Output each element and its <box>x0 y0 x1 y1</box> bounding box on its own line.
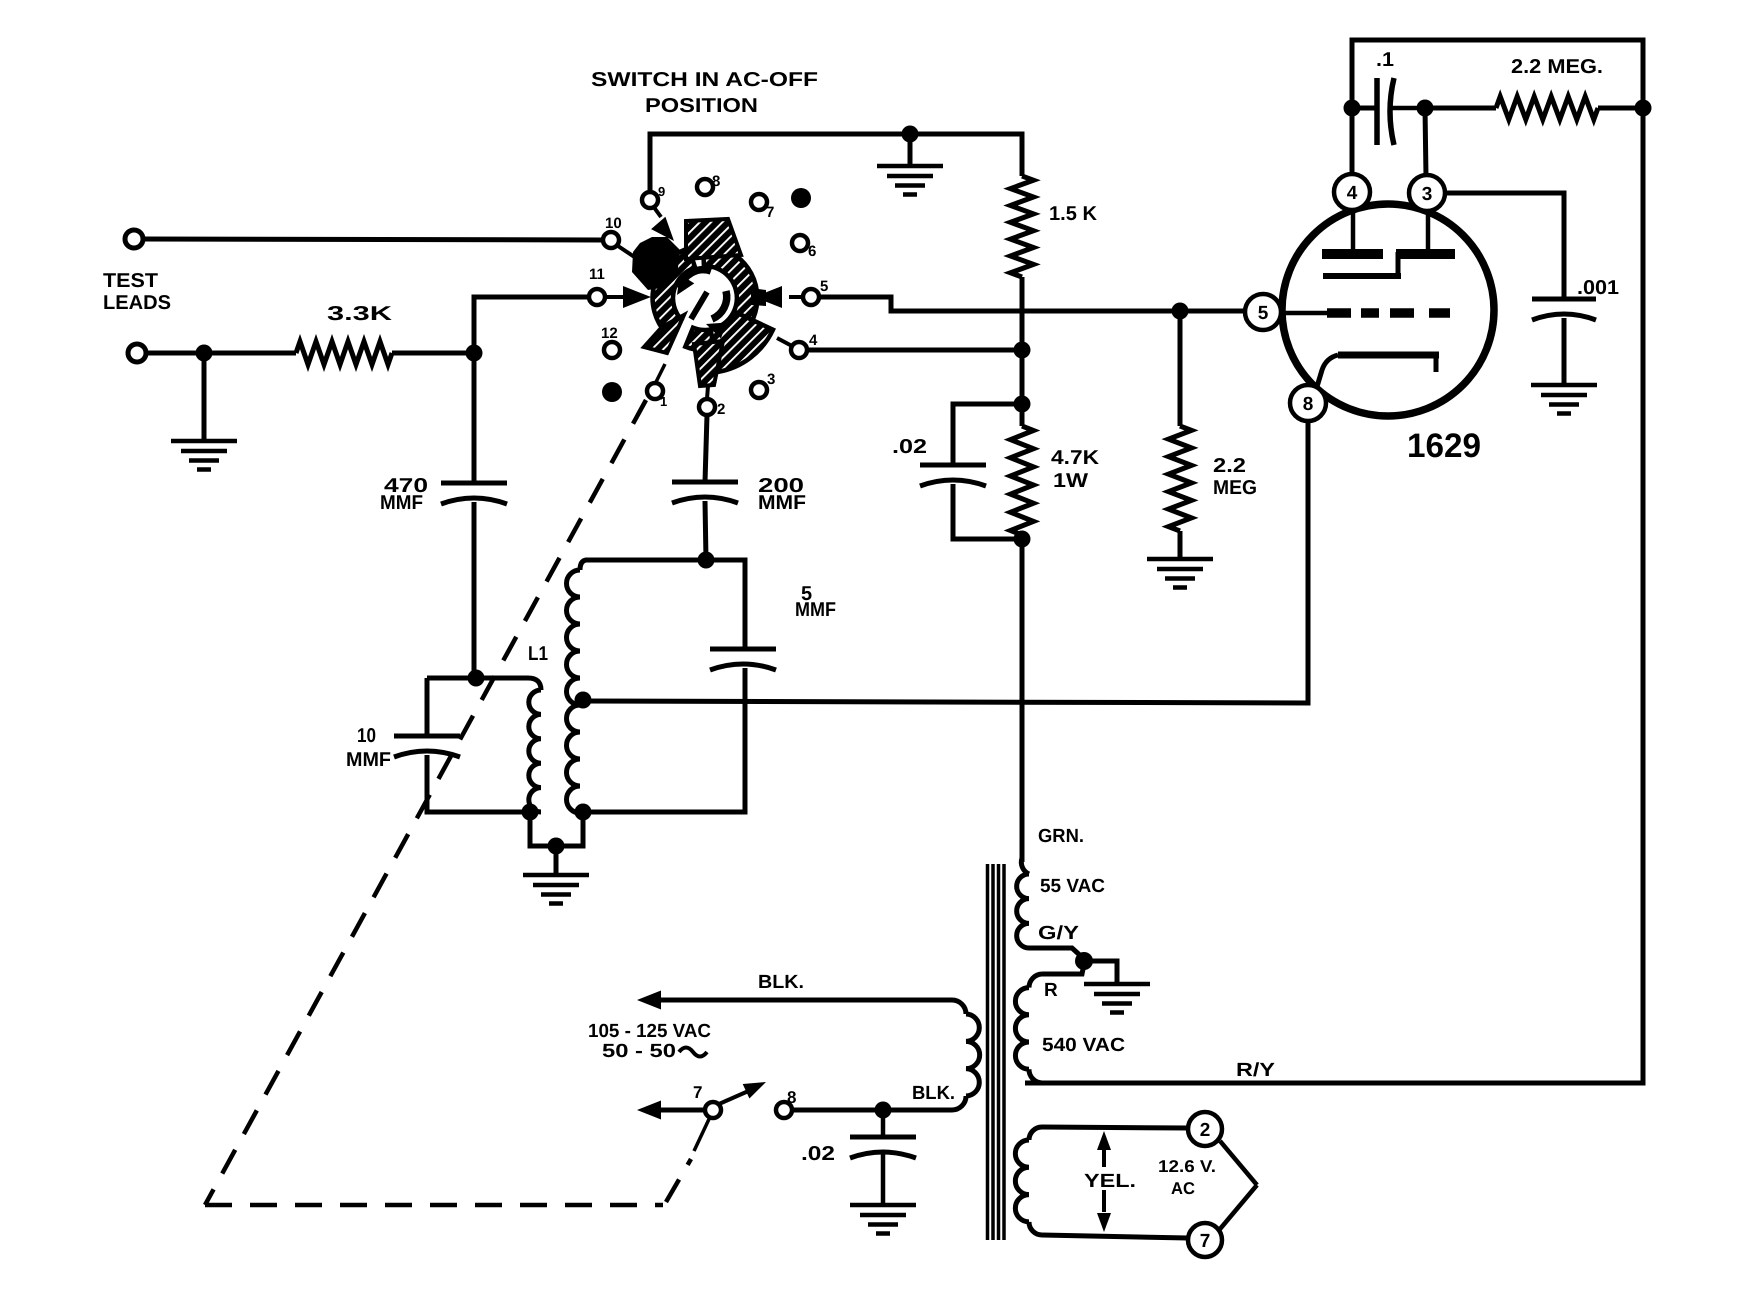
transformer secondary 540VAC winding <box>1029 974 1042 988</box>
svg-text:1629: 1629 <box>1407 427 1481 465</box>
linkage hook at rotor <box>656 364 665 382</box>
wire R winding top <box>1042 964 1084 974</box>
node junction grid divider <box>1014 342 1031 359</box>
wire junction down to 470MMF <box>472 353 477 483</box>
node junction L1 primary bottom <box>522 804 539 821</box>
node junction top ground <box>902 126 919 143</box>
rotary switch rotor bottom wedge <box>694 341 723 386</box>
terminal 2 <box>1188 1112 1222 1146</box>
tube grid lead-in <box>1266 311 1327 316</box>
node junction 2.2MEG grid <box>1172 303 1189 320</box>
svg-text:MMF: MMF <box>380 492 423 514</box>
arrow AC line lead <box>637 1101 661 1120</box>
node junction L1 tap <box>575 692 592 709</box>
switch AC arm <box>719 1089 753 1104</box>
switch contact 2 <box>699 399 715 415</box>
transformer secondary YEL winding <box>1042 1127 1188 1128</box>
svg-text:AC: AC <box>1171 1179 1195 1198</box>
rotary switch wiper nub right <box>751 288 766 306</box>
ground at test lead <box>202 353 207 441</box>
rotary switch rotor right arc <box>685 245 757 350</box>
arrow BLK line lead <box>637 991 661 1010</box>
arrow contact 5 wiper <box>754 286 782 308</box>
svg-text:SWITCH IN AC-OFF: SWITCH IN AC-OFF <box>591 69 818 91</box>
wire top rail <box>1352 40 1643 108</box>
svg-text:3.3K: 3.3K <box>327 303 393 325</box>
tube grid dashes <box>1327 308 1351 318</box>
wire divider to transformer GRN <box>1020 535 1025 862</box>
tube cathode <box>1338 352 1439 359</box>
rotary switch hub slash <box>691 292 707 319</box>
svg-text:2.2 MEG.: 2.2 MEG. <box>1511 56 1603 78</box>
switch contact 9 <box>642 192 658 208</box>
rotary switch inner hub arrow cw <box>712 291 727 319</box>
wire junction down <box>1020 350 1025 404</box>
svg-text:2: 2 <box>717 401 725 418</box>
wire pin4 up <box>1350 108 1355 176</box>
node junction at ground tap <box>196 345 213 362</box>
svg-text:TEST: TEST <box>103 270 158 292</box>
ground at .001 <box>1562 318 1567 385</box>
tube ray shield <box>1323 273 1401 279</box>
svg-text:12.6 V.: 12.6 V. <box>1158 1157 1216 1176</box>
tube target anode right <box>1396 249 1455 259</box>
node junction L1 secondary bottom <box>575 804 592 821</box>
tube pin 3 <box>1409 175 1445 211</box>
switch contact 7 <box>751 194 767 210</box>
svg-text:BLK.: BLK. <box>758 972 804 993</box>
svg-text:BLK.: BLK. <box>912 1083 955 1104</box>
dashed linkage rotor to bottom <box>205 400 646 1205</box>
switch unused dot left <box>602 382 622 402</box>
terminal 7 yel <box>1188 1223 1222 1257</box>
wire .02 branch top <box>953 404 1022 465</box>
svg-text:8: 8 <box>712 173 720 190</box>
svg-text:9: 9 <box>658 184 665 199</box>
rotary switch rotor bottom-right lobe <box>711 312 773 372</box>
capacitor 10 MMF <box>394 734 460 739</box>
switch contact 10 <box>603 232 619 248</box>
svg-text:55 VAC: 55 VAC <box>1040 876 1105 897</box>
svg-text:.02: .02 <box>801 1143 835 1165</box>
svg-text:MMF: MMF <box>758 492 806 514</box>
wire pin3 up <box>1425 108 1426 177</box>
svg-text:8: 8 <box>787 1088 796 1107</box>
svg-text:1W: 1W <box>1053 470 1088 492</box>
switch contact 3 <box>751 382 767 398</box>
wire .02 branch bottom <box>953 484 1022 539</box>
wire contact 5 to grid line <box>819 297 1245 311</box>
svg-text:4: 4 <box>809 332 818 349</box>
node junction .02 line <box>875 1102 892 1119</box>
wire 12.6V bracket <box>1220 1141 1257 1185</box>
wire 5MMF down to loop bottom <box>583 668 745 812</box>
svg-text:4: 4 <box>1347 183 1358 204</box>
svg-text:105 - 125 VAC: 105 - 125 VAC <box>588 1021 711 1042</box>
node junction L1 ground <box>548 838 565 855</box>
wire 470MMF to L1 loop <box>472 502 477 678</box>
svg-text:11: 11 <box>589 266 605 283</box>
wire L1 tap to tube pin 8 <box>583 421 1308 703</box>
wire 3.3K to junction <box>392 351 474 356</box>
tube pin 5 <box>1245 294 1281 330</box>
svg-text:LEADS: LEADS <box>103 292 171 314</box>
arrow contact 11 wiper <box>623 286 651 308</box>
terminal test lead 2 <box>128 344 146 362</box>
wire L1 common to ground <box>530 812 583 846</box>
svg-text:POSITION: POSITION <box>645 95 758 117</box>
svg-text:.1: .1 <box>1376 49 1394 71</box>
yel winding span arrow <box>1102 1148 1106 1167</box>
ground at L1 <box>554 846 559 875</box>
wire loop left upper <box>425 678 430 736</box>
svg-text:7: 7 <box>1200 1231 1211 1252</box>
svg-text:G/Y: G/Y <box>1038 923 1079 944</box>
node junction .1 left <box>1344 100 1361 117</box>
wire test lead 1 to contact 10 <box>143 239 603 240</box>
wire pin3 to .001 <box>1444 193 1564 299</box>
svg-text:7: 7 <box>766 204 774 221</box>
svg-text:L1: L1 <box>528 643 548 665</box>
node junction 200MMF at loop <box>698 552 715 569</box>
resistor 1.5K <box>1011 176 1034 277</box>
transformer core <box>986 864 990 1240</box>
svg-text:MEG: MEG <box>1213 477 1257 499</box>
rotary switch wiper blob upper-left <box>632 237 680 290</box>
wire 200MMF to loop <box>705 501 706 560</box>
svg-text:.001: .001 <box>1577 277 1619 299</box>
svg-text:10: 10 <box>605 215 622 232</box>
wire 1.5K to junction <box>1020 277 1025 350</box>
ground at .02 line <box>850 1203 916 1208</box>
switch contact 6 <box>792 235 808 251</box>
capacitor .001 <box>1532 297 1596 302</box>
switch AC contact 8 <box>776 1102 792 1118</box>
wire 2.2MEG to right rail <box>1598 106 1643 111</box>
svg-text:7: 7 <box>693 1083 702 1102</box>
rotary switch rotor left arc <box>653 248 696 333</box>
tube pin 8 <box>1290 385 1326 421</box>
svg-text:3: 3 <box>1422 184 1433 205</box>
wire contact 8 to transformer <box>792 1108 952 1113</box>
wire test lead 2 to resistor <box>146 351 296 356</box>
wire loop top left <box>427 676 476 681</box>
node junction G/Y ground <box>1075 952 1093 970</box>
capacitor .02 middle <box>920 463 986 468</box>
capacitor 470 MMF <box>441 481 507 486</box>
resistor 2.2 MEG shunt <box>1178 311 1183 426</box>
ground at 2.2MEG <box>1178 531 1183 559</box>
transformer secondary 55VAC winding <box>1021 858 1029 874</box>
wire right rail R/Y <box>1025 108 1643 1083</box>
switch AC pivot link <box>694 1117 710 1151</box>
dashed linkage to AC switch <box>666 1159 691 1202</box>
svg-text:3: 3 <box>767 371 775 388</box>
ground at G/Y <box>1090 961 1117 984</box>
svg-text:R: R <box>1044 980 1058 1001</box>
node junction .02 top <box>1014 396 1031 413</box>
rotary switch inner hub arrow ccw <box>680 270 711 288</box>
transformer primary winding <box>655 998 952 1003</box>
resistor 2.2 MEG feedback <box>1496 97 1598 120</box>
tube pin3 lead <box>1426 211 1431 250</box>
node junction below contact 11 <box>466 345 483 362</box>
switch AC contact 7 <box>705 1102 721 1118</box>
arrow contact 9 wiper <box>651 217 674 241</box>
switch unused dot right <box>791 188 811 208</box>
resistor 4.7K 1W <box>1020 404 1025 426</box>
svg-text:R/Y: R/Y <box>1236 1060 1275 1081</box>
svg-text:1.5 K: 1.5 K <box>1049 203 1098 225</box>
switch contact 5 <box>803 289 819 305</box>
switch contact 4 <box>791 342 807 358</box>
svg-text:2: 2 <box>1200 1120 1211 1141</box>
svg-text:MMF: MMF <box>346 749 391 771</box>
wire .1 to 2.2MEG <box>1425 106 1496 111</box>
svg-text:6: 6 <box>808 243 816 260</box>
tube pin 4 <box>1334 174 1370 210</box>
svg-text:540 VAC: 540 VAC <box>1042 1035 1125 1056</box>
svg-text:1: 1 <box>660 394 667 409</box>
svg-text:5: 5 <box>1258 303 1269 324</box>
node junction 4.7K bottom <box>1014 531 1031 548</box>
inductor L1 primary coil <box>476 678 541 690</box>
svg-text:MMF: MMF <box>795 599 836 621</box>
wire lead to contact 7 <box>655 1108 705 1113</box>
capacitor .1 <box>1352 106 1377 111</box>
wire junction up to contact 11 <box>474 297 589 353</box>
terminal test lead 1 <box>125 230 143 248</box>
wire loop left lower <box>427 755 530 812</box>
svg-text:5: 5 <box>820 278 828 295</box>
node junction right rail <box>1635 100 1652 117</box>
svg-text:50 - 50: 50 - 50 <box>602 1041 676 1062</box>
wire contact 4 to divider <box>807 348 1022 353</box>
wire G/Y tap <box>1029 948 1083 958</box>
svg-text:12: 12 <box>601 325 618 342</box>
svg-text:YEL.: YEL. <box>1084 1171 1136 1192</box>
capacitor 5 MMF <box>710 647 776 652</box>
capacitor 200 MMF <box>672 480 738 485</box>
inductor L1 secondary coil <box>580 560 600 570</box>
capacitor .02 line <box>881 1110 886 1137</box>
switch contact 1 <box>647 383 663 399</box>
svg-text:.02: .02 <box>892 436 927 458</box>
svg-text:8: 8 <box>1303 394 1314 415</box>
switch contact 11 <box>589 289 605 305</box>
svg-text:2.2: 2.2 <box>1213 455 1246 477</box>
wire contact 2 down to 200MMF <box>705 415 707 482</box>
switch contact 8 <box>697 179 713 195</box>
rotary switch rotor top wedge <box>686 219 741 259</box>
svg-text:10: 10 <box>357 725 376 747</box>
tube target anode left <box>1322 249 1383 259</box>
switch contact 12 <box>604 342 620 358</box>
tube V1 1629 envelope <box>1282 204 1494 416</box>
resistor 3.3K <box>296 342 392 365</box>
tube pin4 lead <box>1351 210 1356 250</box>
svg-text:GRN.: GRN. <box>1038 826 1084 847</box>
node junction loop top left <box>468 670 485 687</box>
node junction .1 right <box>1417 100 1434 117</box>
ground top middle <box>908 134 913 166</box>
svg-text:4.7K: 4.7K <box>1051 447 1100 469</box>
wire contact 9 up and over to 1.5K <box>650 134 1022 192</box>
wire loop top to 5MMF corner <box>600 560 745 649</box>
dashed linkage bottom run <box>205 1203 663 1208</box>
